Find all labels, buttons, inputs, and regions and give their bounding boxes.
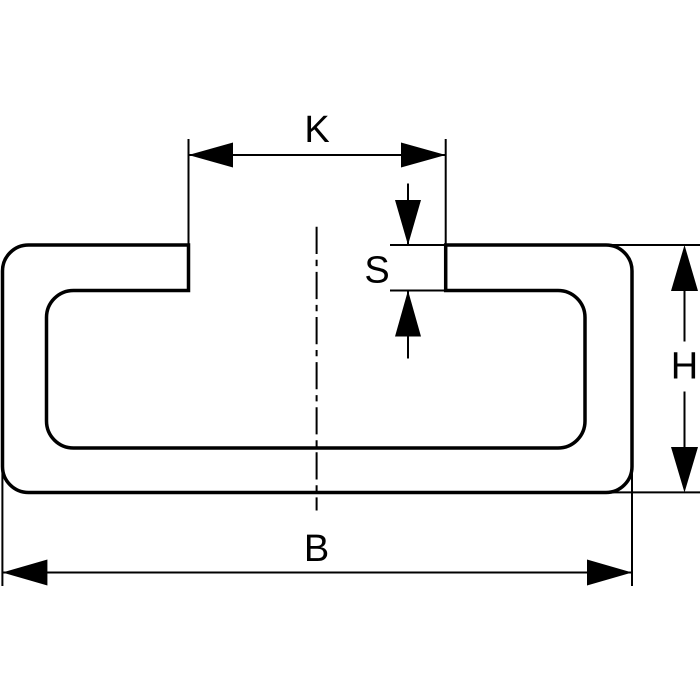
S extension line bottom	[390, 290, 446, 292]
centerline	[316, 227, 318, 511]
S arrow bottom	[395, 291, 421, 337]
C-profile outline	[3, 245, 633, 493]
K dimension line	[189, 154, 446, 156]
S leader line top	[407, 184, 409, 246]
K arrow left	[189, 143, 234, 168]
H extension line top	[606, 244, 700, 246]
K extension line left	[188, 139, 190, 245]
H arrow up	[671, 245, 698, 291]
svg-text:K: K	[304, 109, 329, 151]
H extension line bottom	[606, 491, 700, 493]
K arrow right	[401, 143, 446, 168]
svg-text:H: H	[671, 346, 698, 388]
B dimension line	[2, 572, 632, 574]
B arrow left	[2, 560, 47, 586]
B extension line right	[631, 460, 633, 586]
S arrow top	[395, 200, 421, 245]
H arrow down	[671, 447, 698, 493]
S leader line bottom	[407, 291, 409, 359]
H dimension line upper	[684, 291, 686, 342]
svg-text:B: B	[304, 528, 329, 570]
S extension line top	[390, 244, 446, 246]
H dimension line lower	[684, 392, 686, 448]
svg-text:S: S	[364, 250, 389, 292]
B extension line left	[1, 460, 3, 586]
K extension line right	[445, 139, 447, 245]
B arrow right	[587, 560, 632, 586]
